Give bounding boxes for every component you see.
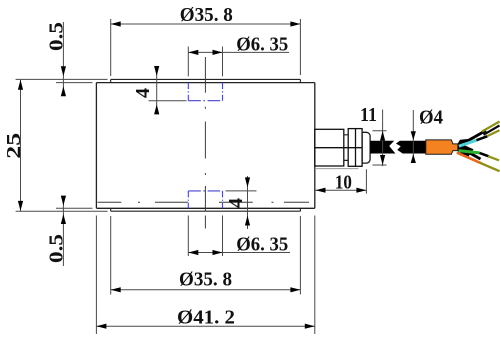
wire: green <box>459 151 480 153</box>
dimension 0.5 top: arrows <box>61 66 66 96</box>
dimension 25: extension line bottom <box>16 210 108 212</box>
dimension Ø6.35 top: dimension line with leader <box>188 51 289 53</box>
gland shadow line <box>316 168 358 170</box>
dimension Ø35.8 top: arrows <box>111 21 301 26</box>
vertical centerline <box>204 57 206 229</box>
svg-text:0.5: 0.5 <box>46 22 68 51</box>
cable gland neck <box>344 135 348 161</box>
wire: green olive tip <box>488 156 499 160</box>
dimension 0.5 top: dimension line <box>62 22 64 96</box>
bottom horizontal centerline <box>98 201 310 203</box>
svg-text:Ø35. 8: Ø35. 8 <box>180 4 233 26</box>
dimension Ø6.35 top: arrows <box>188 50 222 55</box>
cable break symbol + cable segment 2 (black) <box>396 141 426 154</box>
svg-text:Ø6. 35: Ø6. 35 <box>236 34 288 56</box>
dimension 11: arrows <box>380 131 385 165</box>
dimension 4 bottom: extension line <box>226 190 257 192</box>
wire: black strand mid <box>484 126 500 135</box>
dimension 11: dimension line <box>382 110 384 167</box>
svg-text:4: 4 <box>225 198 247 208</box>
svg-text:11: 11 <box>360 104 377 126</box>
cable gland block 1 (hex body) <box>315 129 362 166</box>
cable gland block 2 (nut rings) <box>348 129 362 167</box>
dimension 10: extension line <box>365 169 367 193</box>
dimension Ø4: arrows <box>411 131 416 163</box>
cable segment 1 (black) <box>370 141 395 154</box>
dimension Ø6.35 bottom: dimension line with leader <box>188 252 290 254</box>
wire: black finger lower <box>464 150 481 160</box>
dimension 0.5 bottom: arrows <box>61 196 66 224</box>
dimension Ø4: dimension line <box>412 110 414 162</box>
dimension 4 bottom: dimension line <box>247 176 249 229</box>
top blind hole Ø6.35 (hidden, blue dashed) <box>188 83 222 101</box>
dimension 11: extension ticks <box>373 131 387 165</box>
svg-text:Ø6. 35: Ø6. 35 <box>236 233 288 255</box>
dimension Ø35.8 bottom: extension lines <box>111 216 301 295</box>
dimension Ø6.35 bottom: arrows <box>188 250 222 255</box>
svg-text:25: 25 <box>3 133 25 159</box>
dimension 10: arrows <box>316 188 367 193</box>
dimension 25: dimension line <box>20 80 22 211</box>
svg-text:Ø4: Ø4 <box>419 106 443 128</box>
wire: black lead to twisted pair <box>462 131 486 145</box>
wire: cyan olive tip <box>487 130 500 136</box>
body outline (Ø41.2 cylinder side view) <box>96 83 314 209</box>
wire: cyan <box>459 140 478 146</box>
bottom boss plate (Ø35.8 x 0.5) <box>111 208 301 211</box>
dimension 25: arrows <box>18 80 23 211</box>
wire: olive strand top <box>482 122 500 132</box>
svg-text:Ø35. 8: Ø35. 8 <box>179 269 232 291</box>
dimension Ø41.2: dimension line <box>96 325 314 327</box>
dimension Ø35.8 top: extension lines <box>111 19 301 76</box>
dimension Ø41.2: arrows <box>96 324 314 329</box>
svg-text:4: 4 <box>132 88 154 98</box>
wire: cyan black tip <box>477 136 488 140</box>
dimension Ø35.8 bottom: dimension line <box>111 289 301 291</box>
dimension 4 bottom: arrows <box>245 177 250 225</box>
orange cable sheath <box>426 140 458 154</box>
dimension Ø35.8 top: dimension line <box>111 23 301 25</box>
dimension 0.5 top: extension lines <box>16 79 108 82</box>
svg-text:0.5: 0.5 <box>46 234 68 263</box>
black wire bundle at sheath end <box>458 139 474 158</box>
wire: bottom olive tip <box>480 163 500 171</box>
dimension 10: dimension line <box>316 189 367 191</box>
dimension Ø35.8 bottom: arrows <box>111 287 301 292</box>
svg-text:10: 10 <box>335 171 352 193</box>
wire: green black tip <box>480 153 490 157</box>
dimension 4 top: dimension line <box>156 67 158 113</box>
dimension Ø6.35 top: extension lines <box>188 47 222 77</box>
dimension 0.5 bottom: dimension line <box>62 197 64 266</box>
dimension Ø6.35 bottom: extension lines <box>188 216 222 257</box>
dimension 0.5 bottom: extension line <box>56 207 93 209</box>
cable gland block 3 (round flange) <box>362 132 370 163</box>
dimension Ø41.2: extension lines <box>96 216 314 335</box>
bottom blind hole Ø6.35 (hidden, blue dashed) <box>188 191 222 208</box>
top boss plate (Ø35.8 x 0.5) <box>111 79 301 82</box>
wire: orange-red <box>457 153 481 164</box>
dimension 4 top: arrows <box>154 66 159 114</box>
dimension 4 top: extension line <box>149 100 187 102</box>
svg-text:Ø41. 2: Ø41. 2 <box>177 306 235 328</box>
